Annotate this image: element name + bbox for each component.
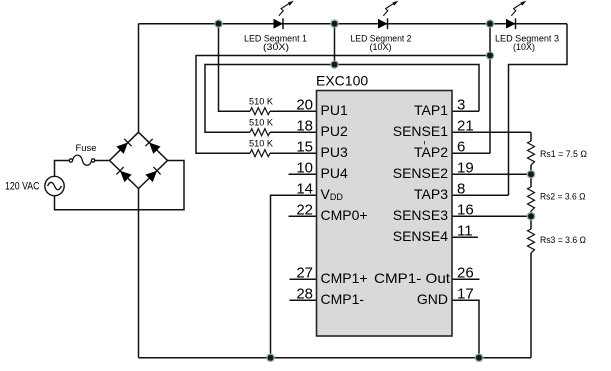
svg-text:120 VAC: 120 VAC [5,181,40,193]
svg-text:Fuse: Fuse [75,143,96,154]
wire LED2 junction riser [334,24,336,65]
wire Rs rail segment Rs2 to Rs3 [530,211,532,229]
svg-text:CMP1- Out: CMP1- Out [374,270,450,286]
junction node LED2 top rail [330,19,339,28]
svg-text:510 K: 510 K [249,97,274,108]
svg-text:17: 17 [457,286,474,303]
svg-text:TAP3: TAP3 [414,186,448,202]
wire TAP3 pin stub [452,194,509,196]
svg-text:510 K: 510 K [249,139,274,150]
svg-text:21: 21 [457,118,474,135]
svg-text:15: 15 [296,139,313,156]
wire GND pin 17 stub and riser to ground rail [452,300,479,358]
svg-text:19: 19 [457,160,474,177]
resistor 510K pull-up 1 [250,108,270,115]
junction node LED1 top rail [214,19,223,28]
wire LED3 junction riser to TAP2 [489,24,491,154]
svg-text:28: 28 [296,286,313,303]
wire PU4 pin 10 stub [289,173,317,175]
svg-text:(30X): (30X) [263,42,289,52]
wire CMP0+ pin 22 stub [289,215,317,217]
wire bridge plus output riser [138,24,140,133]
svg-text:TAP1: TAP1 [414,102,448,118]
wire TAP1 pin stub [452,110,479,112]
bridge diode bottom-right [145,167,160,182]
fuse [69,155,95,165]
wire SENSE2 pin 19 stub to Rs rail [452,173,531,175]
svg-text:PU3: PU3 [321,144,348,160]
junction node GND ground rail [475,353,484,362]
wire top positive rail [139,23,568,25]
svg-text:3: 3 [457,97,465,114]
wire Rs rail segment Rs3 to ground rail [530,253,532,358]
junction node VDD ground rail [266,353,275,362]
resistor 510K pull-up 3 [250,150,270,157]
svg-text:PU2: PU2 [321,123,348,139]
wire PU2 to TAP1 net horizontal [205,65,479,133]
wire fuse to bridge left vertex [95,160,110,162]
wire SENSE1 pin 21 stub to Rs rail [452,131,531,133]
svg-text:PU1: PU1 [321,102,348,118]
svg-text:PU4: PU4 [321,165,348,181]
wire PU3 to TAP2 net horizontal [196,56,490,154]
svg-text:26: 26 [457,265,474,282]
tick artifact above TAP2 [424,141,426,145]
IC U1 EXC100 body [317,91,453,337]
AC source 120 VAC [45,176,64,195]
wire bridge minus output riser [138,189,140,358]
LED segment 3 diode [506,18,516,29]
bridge diode bottom-left [116,167,131,182]
svg-text:SENSE1: SENSE1 [393,123,448,139]
svg-text:CMP0+: CMP0+ [321,207,368,223]
wire PU2 510K to chip stub pin 18 [270,131,317,133]
svg-text:Rs3 = 3.6 Ω: Rs3 = 3.6 Ω [540,235,586,246]
LED segment 1 diode [274,18,284,29]
wire VDD pin 14 stub and riser to ground rail [271,195,317,358]
wire SENSE4 pin 11 stub [452,236,478,238]
LED segment 3 light arrow [511,1,526,16]
svg-text:EXC100: EXC100 [316,73,368,89]
wire bottom ground rail [139,357,532,359]
svg-text:CMP1+: CMP1+ [321,270,368,286]
wire CMP1+ pin 27 stub [290,278,317,280]
wire Rs rail segment SENSE1 to Rs1 [530,132,532,141]
svg-text:Rs1 = 7.5 Ω: Rs1 = 7.5 Ω [540,149,587,160]
resistor Rs2 [528,187,535,211]
wire PU1 510K to chip stub pin 20 [270,110,317,112]
svg-text:20: 20 [296,97,313,114]
svg-text:SENSE3: SENSE3 [393,207,448,223]
bridge rectifier diamond outline [110,132,168,188]
junction node TAP2 net [486,51,495,60]
svg-text:10: 10 [296,160,313,177]
wire SENSE3 pin 16 stub to Rs rail [452,215,531,217]
bridge diode top-left [116,139,131,154]
wire Rs rail segment Rs1 to Rs2 [530,165,532,187]
svg-text:22: 22 [296,202,313,219]
svg-text:Rs2 = 3.6 Ω: Rs2 = 3.6 Ω [540,192,586,203]
svg-text:6: 6 [457,139,465,156]
wire CMP1- Out pin 26 stub [452,278,480,280]
junction node LED3 top rail [486,19,495,28]
junction node SENSE3 Rs2-Rs3 [527,212,536,221]
wire AC return loop [55,161,185,210]
svg-text:(10X): (10X) [370,42,392,52]
svg-text:16: 16 [457,202,474,219]
junction node SENSE2 Rs1-Rs2 [527,170,536,179]
svg-text:8: 8 [457,181,465,198]
svg-text:14: 14 [296,181,313,198]
wire TAP2 pin stub [452,152,490,154]
svg-text:27: 27 [296,265,313,282]
svg-text:CMP1-: CMP1- [321,291,365,307]
bridge diode top-right [145,139,160,154]
resistor Rs1 [528,141,535,165]
wire TAP3 connection to top rail right corner [509,24,568,196]
wire PU3 510K to chip stub pin 15 [270,152,317,154]
svg-text:11: 11 [457,223,473,240]
LED segment 2 diode [378,18,388,29]
svg-text:SENSE2: SENSE2 [393,165,448,181]
svg-text:(10X): (10X) [513,42,535,52]
svg-text:SENSE4: SENSE4 [393,228,448,244]
LED segment 1 light arrow [279,1,294,16]
junction node TAP1 net [330,60,339,69]
LED segment 2 light arrow [383,1,398,16]
svg-text:GND: GND [417,291,448,307]
wire CMP1- pin 28 stub [290,299,317,301]
wire AC source top to fuse [55,161,70,177]
resistor Rs3 [528,229,535,253]
svg-text:510 K: 510 K [249,118,274,129]
wire PU1 riser from top rail [219,24,251,112]
svg-text:18: 18 [296,118,313,135]
resistor 510K pull-up 2 [250,129,270,136]
svg-text:TAP2: TAP2 [414,144,448,160]
